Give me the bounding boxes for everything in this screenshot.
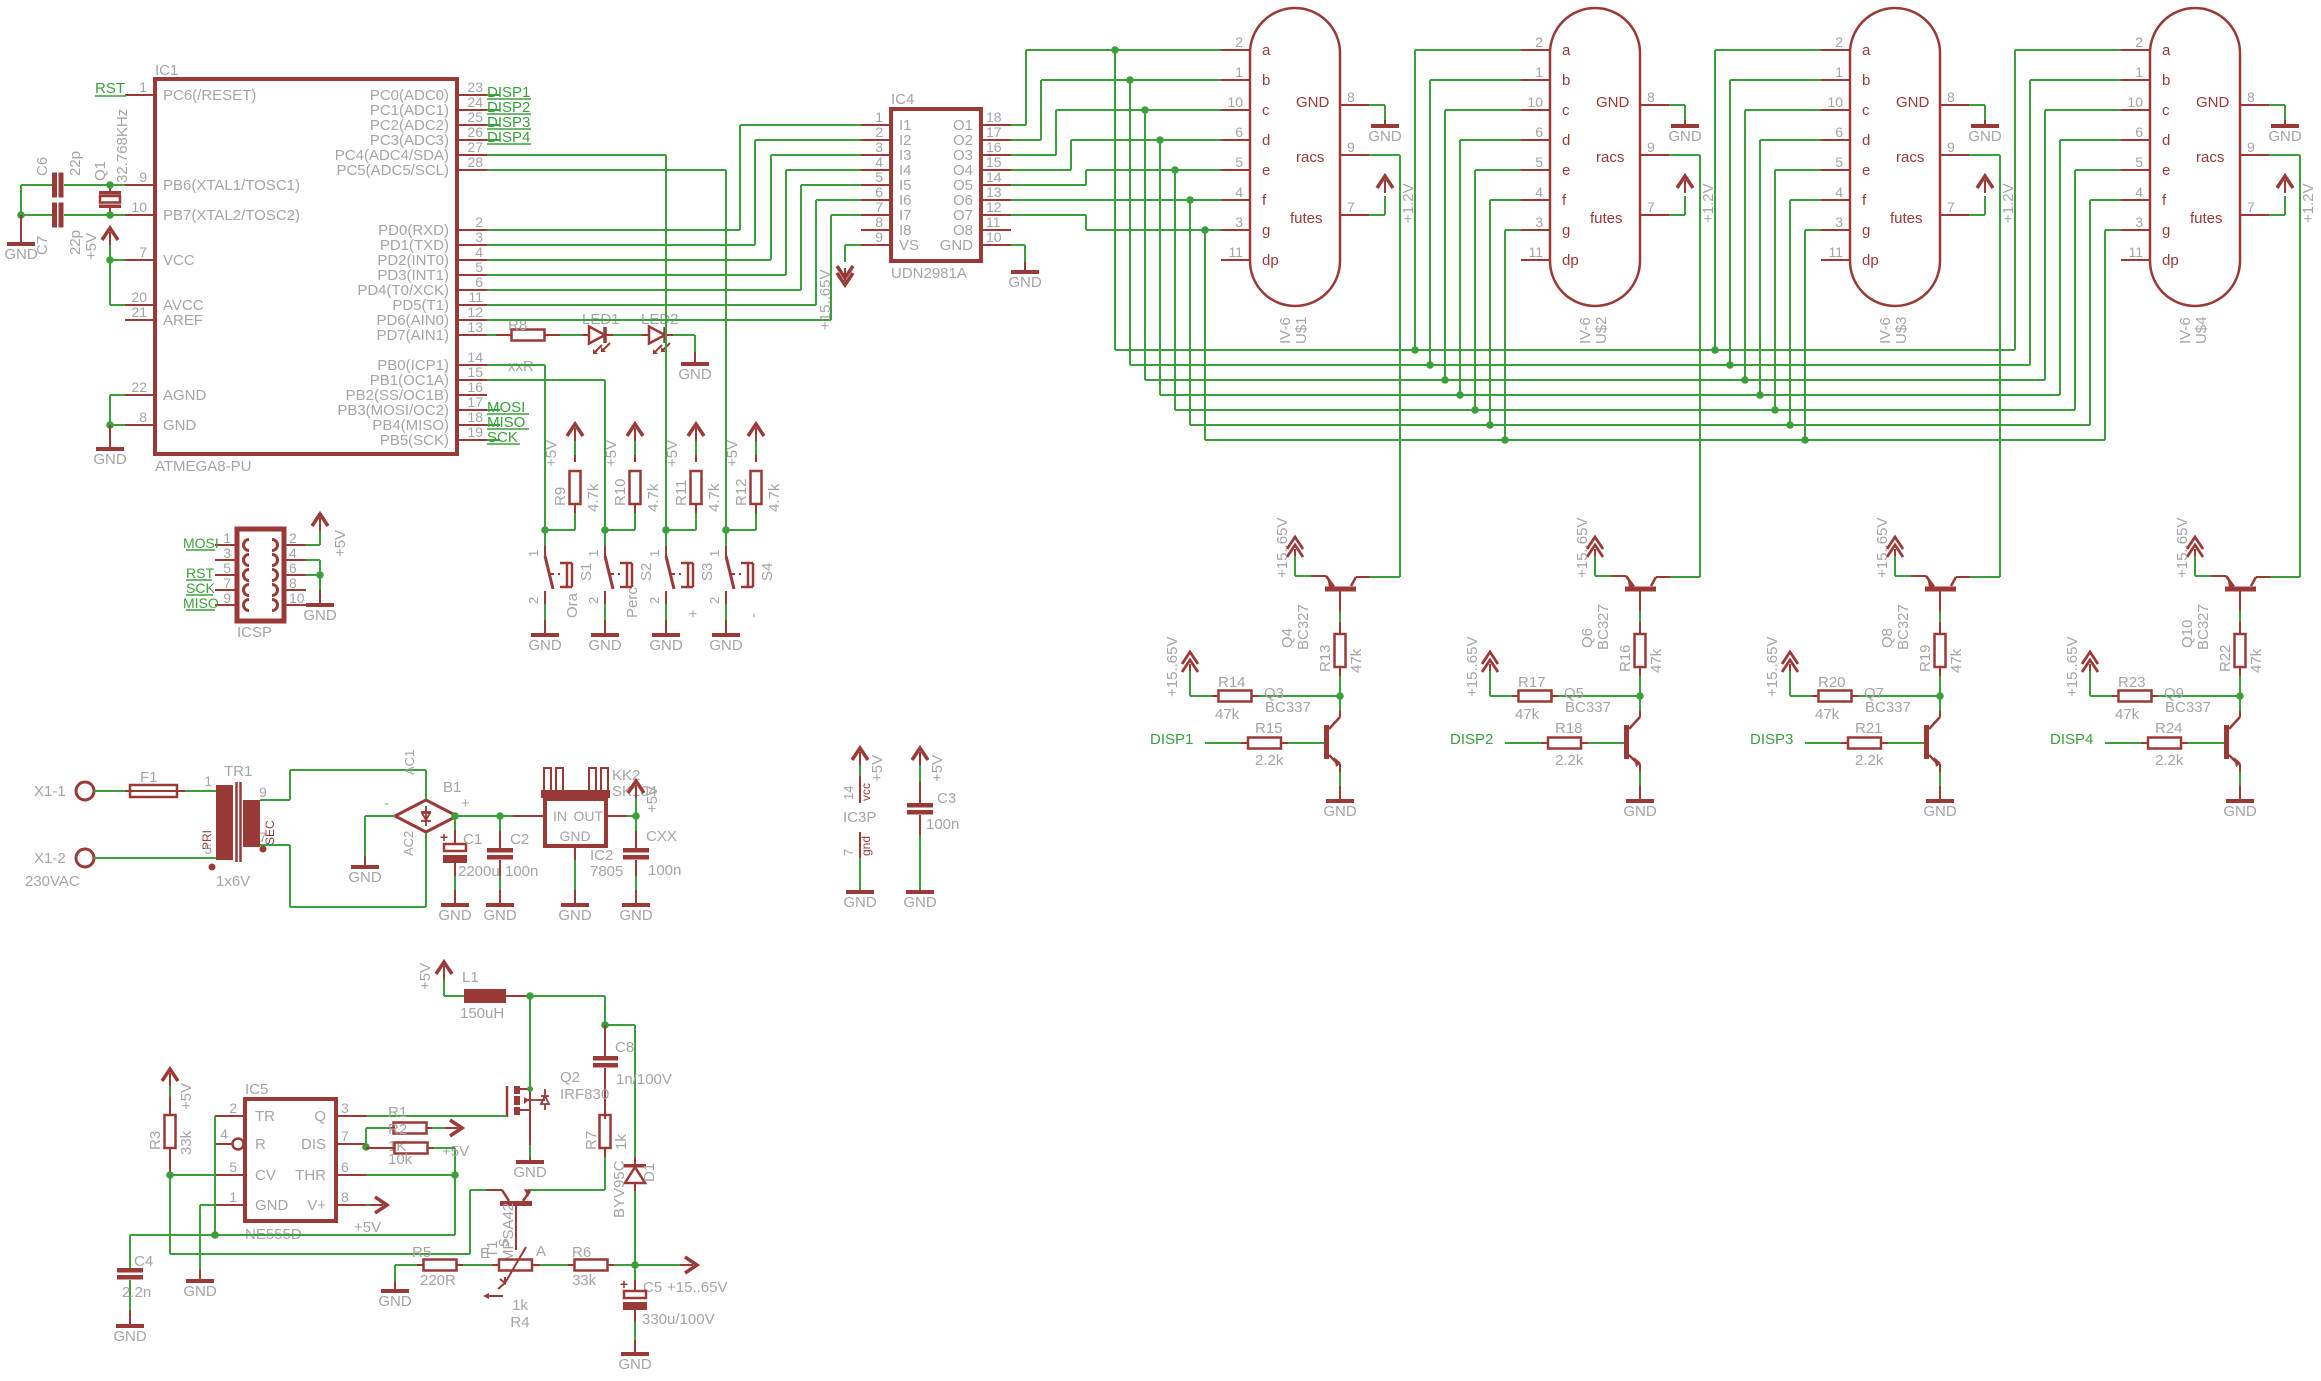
- svg-text:100n: 100n: [505, 863, 538, 880]
- svg-text:11: 11: [1828, 244, 1843, 260]
- svg-text:+: +: [440, 829, 448, 845]
- svg-text:DISP3: DISP3: [1750, 731, 1793, 748]
- capacitor C2 100n: [487, 816, 538, 880]
- ground at IC1: [93, 425, 127, 468]
- wire R15 to Q3 base: [1288, 742, 1324, 744]
- wire AVCC: [110, 260, 125, 305]
- junction segment f tap: [1186, 196, 1194, 204]
- tube U$2 pin 7: [1640, 199, 1669, 215]
- svg-text:7: 7: [1647, 199, 1655, 215]
- resistor R2 10k: [366, 1121, 455, 1168]
- svg-text:PC6(/RESET): PC6(/RESET): [163, 87, 256, 104]
- svg-text:futes: futes: [1890, 210, 1923, 227]
- svg-text:BC337: BC337: [1265, 699, 1311, 716]
- svg-text:MPSA42: MPSA42: [500, 1203, 517, 1262]
- wire X1-2 to TR1: [94, 857, 216, 859]
- wire R13 to junction: [1339, 667, 1341, 696]
- wire PD7 to R8: [487, 334, 496, 336]
- resistor R9 4.7k: [552, 455, 602, 513]
- svg-text:1: 1: [204, 773, 212, 789]
- svg-text:19: 19: [467, 424, 483, 440]
- crystal Q1: [92, 109, 131, 215]
- svg-text:5: 5: [1835, 154, 1843, 170]
- svg-text:dp: dp: [1562, 252, 1579, 269]
- wire Q7 emitter to gnd: [1939, 772, 1941, 799]
- wire segment d down to bus: [1159, 140, 1161, 395]
- ground at C2: [483, 903, 517, 924]
- svg-text:47k: 47k: [2115, 706, 2140, 723]
- wire segment c down to bus: [1144, 110, 1146, 380]
- svg-text:S1: S1: [578, 563, 595, 581]
- wire PD1 to I2: [487, 140, 861, 245]
- svg-text:2: 2: [647, 597, 662, 604]
- svg-text:R22: R22: [2217, 644, 2234, 672]
- svg-text:+5V: +5V: [929, 755, 946, 782]
- wire DISP4 to R24: [2105, 742, 2141, 744]
- net label DISP1 at driver: [1150, 731, 1193, 748]
- tube U$3 pin 2 a: [1821, 34, 1871, 59]
- tube U$4 pin 2 a: [2121, 34, 2171, 59]
- svg-text:BC337: BC337: [1565, 699, 1611, 716]
- wire THR net: [366, 1148, 455, 1235]
- svg-text:Ora: Ora: [564, 592, 581, 618]
- svg-text:7805: 7805: [590, 863, 623, 880]
- junction C8: [601, 1021, 609, 1029]
- tube U$3 pin 11 dp: [1821, 244, 1879, 269]
- svg-text:R4: R4: [510, 1314, 529, 1331]
- IC5 pin 3 Q: [314, 1100, 366, 1125]
- capacitor C3 100n: [907, 782, 959, 835]
- wire Q3 emitter to gnd: [1339, 772, 1341, 799]
- resistor R19 47k: [1917, 634, 1965, 673]
- wire segment f down to bus: [1189, 200, 1191, 425]
- wire XTAL1 net: [21, 185, 125, 215]
- svg-text:AREF: AREF: [163, 312, 203, 329]
- wire R18 to Q5 base: [1588, 742, 1624, 744]
- ground at S4: [709, 620, 743, 654]
- wire DISP1 to R15: [1205, 742, 1241, 744]
- ground at LEDs: [678, 352, 712, 383]
- capacitor C8 1n/100V: [593, 1025, 672, 1114]
- wire segment a down to bus: [1114, 50, 1116, 350]
- IC4 pin 16 O3: [953, 139, 1011, 164]
- svg-text:e: e: [1562, 162, 1570, 179]
- svg-text:+5V: +5V: [332, 530, 349, 557]
- svg-text:1: 1: [1835, 64, 1843, 80]
- wire bus to tube U$2 pin e: [1475, 170, 1521, 410]
- svg-text:a: a: [1262, 42, 1271, 59]
- transistor T1 MPSA42: [484, 1189, 532, 1262]
- svg-text:IC2: IC2: [590, 847, 613, 864]
- svg-text:+5V: +5V: [83, 233, 100, 260]
- junction bus tap U$3 f: [1786, 421, 1794, 429]
- svg-text:+15..65V: +15..65V: [1164, 637, 1181, 697]
- net label MISO: [487, 414, 529, 431]
- +5V supply at VCC: [83, 228, 118, 260]
- svg-text:PB5(SCK): PB5(SCK): [380, 432, 449, 449]
- ground at Q2: [513, 1160, 547, 1181]
- IC5 pin 8 V+: [307, 1189, 366, 1214]
- svg-text:UDN2981A: UDN2981A: [891, 265, 967, 282]
- svg-text:R17: R17: [1518, 674, 1546, 691]
- IC1 pin 28 PC5(ADC5/SCL): [336, 154, 487, 179]
- LED LED1: [582, 311, 620, 354]
- svg-text:330u/100V: 330u/100V: [642, 1311, 715, 1328]
- svg-text:12: 12: [986, 199, 1002, 215]
- svg-text:2: 2: [2135, 34, 2143, 50]
- svg-text:R14: R14: [1218, 674, 1246, 691]
- junction S4: [722, 526, 730, 534]
- svg-text:47k: 47k: [1948, 648, 1965, 673]
- svg-text:6: 6: [341, 1159, 349, 1175]
- wire Q5 emitter to gnd: [1639, 772, 1641, 799]
- tube U$1 pin 10 c: [1221, 94, 1270, 119]
- wire bus to tube U$3 pin e: [1775, 170, 1821, 410]
- junction bus tap U$2 a: [1411, 346, 1419, 354]
- svg-text:a: a: [1562, 42, 1571, 59]
- svg-text:5: 5: [223, 560, 231, 576]
- wire CXX to gnd: [635, 860, 637, 903]
- svg-text:GND: GND: [588, 637, 622, 654]
- wire C8 to D1 column: [605, 1025, 635, 1157]
- svg-text:25: 25: [467, 109, 483, 125]
- svg-text:2.2n: 2.2n: [122, 1284, 151, 1301]
- tube U$1 pin 8: [1340, 89, 1369, 105]
- IC1 pin 17 PB3(MOSI/OC2): [337, 394, 487, 419]
- svg-text:12: 12: [467, 304, 483, 320]
- net label MISO at ICSP: [183, 595, 219, 611]
- svg-text:GND: GND: [1323, 803, 1357, 820]
- junction segment g tap: [1201, 226, 1209, 234]
- tube U$2 pin 5 e: [1521, 154, 1570, 179]
- svg-text:150uH: 150uH: [460, 1005, 504, 1022]
- svg-text:2: 2: [586, 597, 601, 604]
- wire R19 to junction: [1939, 667, 1941, 696]
- +15..65V supply at Q4: [1274, 518, 1303, 578]
- svg-text:PD7(AIN1): PD7(AIN1): [376, 327, 449, 344]
- svg-text:c: c: [2162, 102, 2170, 119]
- svg-text:+15..65V: +15..65V: [667, 1279, 727, 1296]
- junction bus tap U$2 c: [1441, 376, 1449, 384]
- svg-text:X1-2: X1-2: [34, 850, 66, 867]
- svg-text:21: 21: [131, 304, 147, 320]
- ground at tube U$4: [2268, 120, 2302, 145]
- +5V supply at R1: [442, 1120, 469, 1160]
- wire segment e down to bus: [1174, 170, 1176, 410]
- svg-text:5: 5: [475, 259, 483, 275]
- svg-text:5: 5: [1235, 154, 1243, 170]
- tube U$4 pin 1 b: [2121, 64, 2170, 89]
- IC4 pin 11 O8: [953, 214, 1011, 239]
- svg-text:L1: L1: [462, 969, 479, 986]
- svg-text:GND: GND: [303, 607, 337, 624]
- svg-text:racs: racs: [1596, 149, 1624, 166]
- svg-text:DISP2: DISP2: [1450, 731, 1493, 748]
- IC5 pin 2 TR: [215, 1100, 275, 1125]
- svg-text:IV-6: IV-6: [1877, 317, 1894, 344]
- junction R13/R14/Q3: [1336, 692, 1344, 700]
- wire PB1 to S2: [487, 380, 605, 530]
- wire bus to tube U$3 pin d: [1760, 140, 1821, 395]
- wire bus to tube U$4 pin e: [2075, 170, 2121, 410]
- svg-text:THR: THR: [295, 1167, 326, 1184]
- svg-text:CXX: CXX: [646, 828, 677, 845]
- svg-text:+15..65V: +15..65V: [817, 270, 834, 330]
- svg-text:VS: VS: [899, 237, 919, 254]
- junction C5: [631, 1261, 639, 1269]
- tube U$1 pin 2 a: [1221, 34, 1271, 59]
- potentiometer R4 1k: [463, 1243, 546, 1331]
- svg-text:e: e: [1862, 162, 1870, 179]
- +15..65V supply at R14: [1164, 637, 1198, 697]
- tube U$4 pin 4 f: [2121, 184, 2167, 209]
- svg-text:GND: GND: [113, 1328, 147, 1345]
- svg-text:C1: C1: [463, 831, 482, 848]
- IC1 pin 1 PC6(/RESET): [125, 79, 256, 104]
- ground at S2: [588, 620, 622, 654]
- heatsink KK2 SK104: [541, 767, 657, 800]
- svg-text:GND: GND: [438, 907, 472, 924]
- svg-text:GND: GND: [348, 869, 382, 886]
- IC1 pin 20 AVCC: [125, 289, 204, 314]
- resistor R6 33k: [540, 1244, 635, 1289]
- svg-text:AC1: AC1: [402, 750, 417, 775]
- wire bus to tube U$3 pin a: [1715, 50, 1821, 350]
- wire PB0 to S1: [487, 365, 545, 530]
- svg-text:230VAC: 230VAC: [25, 873, 80, 890]
- switch S2: [586, 530, 655, 618]
- wire bus to tube U$4 pin a: [2015, 50, 2121, 350]
- svg-text:10: 10: [289, 590, 305, 606]
- wire bus to tube U$2 pin a: [1415, 50, 1521, 350]
- svg-text:47k: 47k: [1348, 648, 1365, 673]
- ICSP pin 6: [284, 560, 306, 576]
- +15..65V supply output: [635, 1257, 727, 1296]
- svg-text:a: a: [1862, 42, 1871, 59]
- svg-text:2: 2: [289, 530, 297, 546]
- junction Q2 drain: [527, 1086, 533, 1092]
- resistor R17 47k: [1490, 674, 1558, 723]
- wire PD6 to I7: [487, 215, 861, 320]
- ground at ICSP: [303, 575, 337, 624]
- svg-text:4: 4: [289, 545, 297, 561]
- svg-text:+15..65V: +15..65V: [2174, 518, 2191, 578]
- svg-text:16: 16: [986, 139, 1002, 155]
- ground at tube U$2: [1668, 120, 1702, 145]
- IC1 pin 26 PC3(ADC3): [370, 124, 487, 149]
- svg-text:2: 2: [1835, 34, 1843, 50]
- svg-text:9: 9: [1347, 139, 1355, 155]
- wire PC4 to S3: [487, 155, 666, 530]
- svg-text:GND: GND: [2268, 128, 2302, 145]
- IC1 pin 5 PD3(INT1): [377, 259, 487, 284]
- wire Q8 collector: [1970, 576, 2000, 578]
- svg-text:2.2k: 2.2k: [1255, 752, 1284, 769]
- svg-text:4.7k: 4.7k: [706, 483, 723, 512]
- wire Q8 to R19: [1939, 592, 1941, 635]
- svg-text:GND: GND: [903, 894, 937, 911]
- svg-text:33k: 33k: [572, 1272, 597, 1289]
- svg-text:2: 2: [475, 214, 483, 230]
- IC1 pin 16 PB2(SS/OC1B): [346, 379, 487, 404]
- svg-text:R1: R1: [388, 1104, 407, 1121]
- svg-text:R5: R5: [412, 1244, 431, 1261]
- svg-text:Q10: Q10: [2179, 620, 2196, 648]
- svg-text:IC4: IC4: [891, 91, 914, 108]
- wire bus to tube U$4 pin d: [2060, 140, 2121, 395]
- transistor Q8 BC327: [1879, 575, 1970, 650]
- junction C6/C7 gnd: [17, 211, 25, 219]
- transistor Q4 BC327: [1279, 575, 1370, 650]
- +1.2V supply at tube U$4: [2269, 176, 2317, 223]
- transistor Q3 BC337: [1264, 685, 1341, 772]
- IC1 pin 4 PD2(INT0): [377, 244, 487, 269]
- svg-text:26: 26: [467, 124, 483, 140]
- tube U$1 pin 11 dp: [1221, 244, 1279, 269]
- svg-text:D1: D1: [641, 1163, 658, 1182]
- svg-text:1: 1: [875, 109, 883, 125]
- ground at tube U$3: [1968, 120, 2002, 145]
- IC4 pin 5 I5: [861, 169, 912, 194]
- svg-text:R10: R10: [612, 478, 629, 506]
- tube U$2 pin 2 a: [1521, 34, 1571, 59]
- svg-text:22p: 22p: [67, 151, 84, 176]
- svg-text:PB6(XTAL1/TOSC1): PB6(XTAL1/TOSC1): [163, 177, 300, 194]
- svg-text:GND: GND: [649, 637, 683, 654]
- svg-text:GND: GND: [1623, 803, 1657, 820]
- net label SCK at ICSP: [186, 580, 215, 596]
- svg-text:+5V: +5V: [178, 1083, 195, 1110]
- junction bus tap U$3 g: [1801, 436, 1809, 444]
- svg-text:4: 4: [475, 244, 483, 260]
- wire L1 to C8 branch: [530, 996, 605, 1025]
- tube U$3 pin 9: [1940, 139, 1969, 155]
- svg-text:+5V: +5V: [354, 1219, 381, 1236]
- ICSP pin 7: [215, 575, 237, 591]
- tube U$2 pin 10 c: [1521, 94, 1570, 119]
- svg-text:GND: GND: [559, 828, 590, 844]
- svg-text:Perc: Perc: [624, 587, 641, 618]
- wire PD5 to I6: [487, 200, 861, 305]
- ICSP pin 3: [215, 545, 237, 561]
- resistor R10 4.7k: [612, 455, 662, 513]
- junction segment d tap: [1156, 136, 1164, 144]
- svg-text:7: 7: [1947, 199, 1955, 215]
- IC1 pin 24 PC1(ADC1): [370, 94, 487, 119]
- ground at Q5: [1623, 799, 1657, 820]
- resistor R1 1K: [366, 1104, 450, 1155]
- svg-text:BC327: BC327: [1595, 604, 1612, 650]
- svg-text:BYV95C: BYV95C: [611, 1160, 628, 1218]
- svg-text:14: 14: [841, 786, 856, 800]
- IC4 pin 14 O5: [953, 169, 1011, 194]
- IC4 pin 6 I6: [861, 184, 912, 209]
- switch S1: [526, 530, 595, 618]
- tube U$3 grid/anode names: [1890, 94, 1930, 227]
- resistor R18 2.2k: [1541, 720, 1588, 769]
- fuse F1: [125, 769, 185, 797]
- svg-text:+5V: +5V: [644, 786, 661, 813]
- svg-text:ATMEGA8-PU: ATMEGA8-PU: [155, 458, 251, 475]
- svg-text:3: 3: [341, 1100, 349, 1116]
- wire bus to tube U$4 pin c: [2045, 110, 2121, 380]
- svg-text:R2: R2: [388, 1121, 407, 1138]
- wire R9 to S1: [545, 513, 575, 530]
- svg-text:+15..65V: +15..65V: [1464, 637, 1481, 697]
- wire C5 to gnd: [634, 1310, 636, 1352]
- svg-text:g: g: [1562, 222, 1570, 239]
- +5V supply at C3: [912, 748, 946, 782]
- svg-text:dp: dp: [1262, 252, 1279, 269]
- svg-text:3: 3: [875, 139, 883, 155]
- svg-text:S: S: [496, 1238, 511, 1247]
- tube U$4 pin 6 d: [2121, 124, 2170, 149]
- tube U$4 pin 7: [2240, 199, 2269, 215]
- svg-text:R23: R23: [2118, 674, 2146, 691]
- svg-text:8: 8: [1947, 89, 1955, 105]
- wire R10 to S2: [605, 513, 635, 530]
- svg-text:C2: C2: [510, 831, 529, 848]
- ground at IC4: [1008, 245, 1042, 291]
- svg-text:R15: R15: [1255, 720, 1283, 737]
- svg-text:CV: CV: [255, 1167, 276, 1184]
- svg-text:GND: GND: [678, 366, 712, 383]
- wire O1 to tube U$1 pin a: [1011, 50, 1221, 125]
- svg-text:1: 1: [229, 1189, 237, 1205]
- junction C1: [451, 812, 459, 820]
- svg-text:TR: TR: [255, 1108, 275, 1125]
- svg-text:AGND: AGND: [163, 387, 207, 404]
- tube U$4 pin 5 e: [2121, 154, 2170, 179]
- transformer TR1: [200, 763, 277, 890]
- svg-text:Q: Q: [314, 1108, 326, 1125]
- IC1 pin 13 PD7(AIN1): [376, 319, 487, 344]
- IC1 pin 11 PD5(T1): [392, 289, 487, 314]
- +5V supply at IC2 out: [628, 781, 661, 816]
- tube U$4 pin 11 dp: [2121, 244, 2179, 269]
- tube U$4 pin 9: [2240, 139, 2269, 155]
- wire segment b down to bus: [1129, 80, 1131, 365]
- junction bus tap U$2 g: [1501, 436, 1509, 444]
- svg-text:e: e: [2162, 162, 2170, 179]
- tube U$2 pin 4 f: [1521, 184, 1567, 209]
- svg-text:2.2k: 2.2k: [1855, 752, 1884, 769]
- svg-text:+: +: [620, 1276, 628, 1292]
- svg-text:S4: S4: [759, 563, 776, 581]
- svg-text:xxR: xxR: [508, 358, 534, 375]
- svg-text:8: 8: [1347, 89, 1355, 105]
- capacitor CXX 100n: [623, 816, 681, 879]
- +5V supply at L1: [417, 962, 452, 996]
- IC1 pin 18 PB4(MISO): [372, 409, 487, 434]
- IC4 pin 18 O1: [953, 109, 1011, 134]
- transistor Q5 BC337: [1564, 685, 1641, 772]
- svg-text:a: a: [2162, 42, 2171, 59]
- IC4 pin 17 O2: [953, 124, 1011, 149]
- svg-text:5: 5: [1535, 154, 1543, 170]
- wire Q6 to R16: [1639, 592, 1641, 635]
- svg-text:PC5(ADC5/SCL): PC5(ADC5/SCL): [336, 162, 449, 179]
- wire O5 to tube U$1 pin e: [1011, 170, 1221, 185]
- wire bus to tube U$2 pin d: [1460, 140, 1521, 395]
- IC4 pin 1 I1: [861, 109, 912, 134]
- +5V supply at R11: [664, 424, 704, 467]
- +1.2V supply at tube U$1: [1369, 176, 1417, 223]
- wire R7 to T1 emitter: [528, 1157, 605, 1190]
- svg-text:10: 10: [1227, 94, 1243, 110]
- junction XTAL1/C6/Q1: [106, 181, 114, 189]
- svg-text:F1: F1: [140, 769, 158, 786]
